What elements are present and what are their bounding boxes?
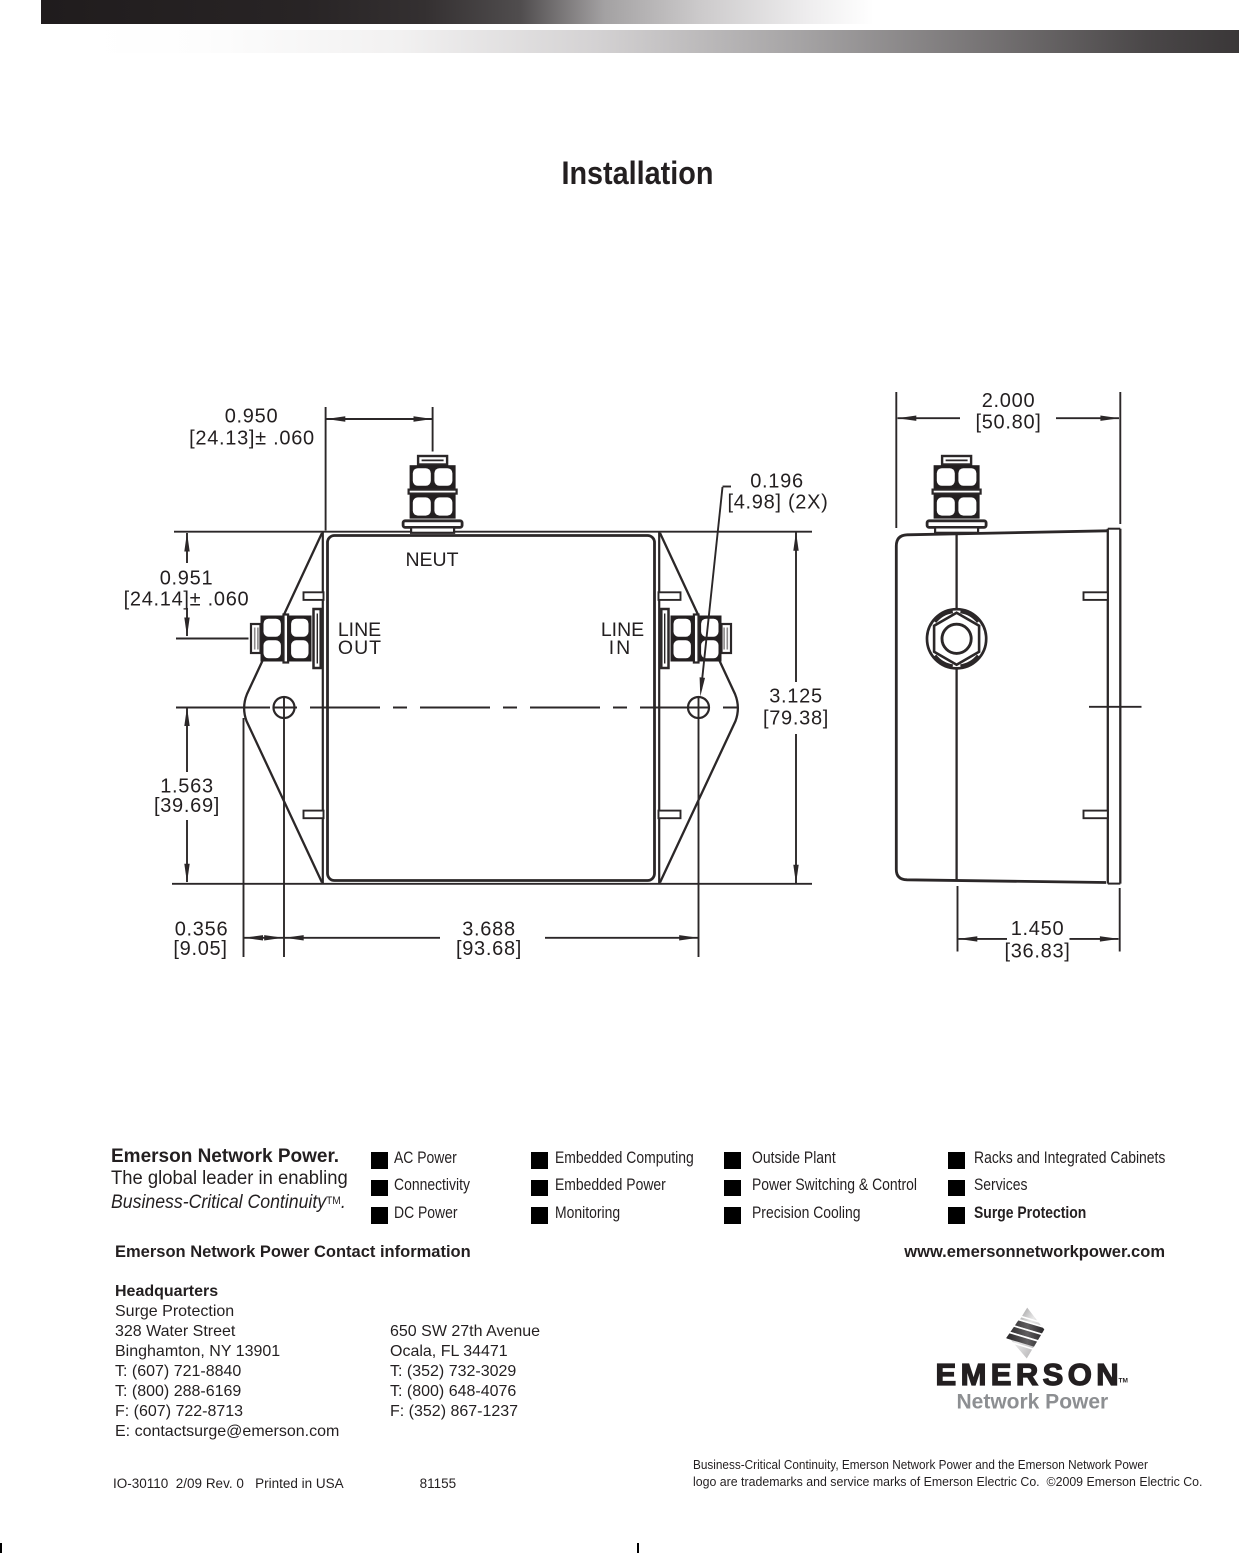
address column 2 [390,1322,540,1422]
LINE OUT terminal (left) [251,609,321,668]
bracket fold line right [658,533,660,884]
svg-text:NEUT: NEUT [405,549,458,571]
right mounting flange outline [660,533,738,883]
left mounting hole [274,697,295,718]
side body outline [896,531,1107,883]
bracket tab lower-left [304,811,324,819]
bracket top edge / extension line [174,531,812,533]
svg-text:[79.38]: [79.38] [763,708,829,730]
dimension 0.356 (bottom small) [244,937,284,939]
dimension line 1.450 [959,938,1008,940]
cylinder silhouette line [955,534,957,611]
bracket fold line left [322,533,324,884]
registration mark centre [637,1543,639,1553]
svg-text:Network Power: Network Power [957,1391,1109,1414]
dimension 0.951 (vertical, left) [186,533,188,563]
contact information heading row [115,1243,471,1262]
column 3 [724,1152,741,1169]
left mounting flange outline [244,533,322,883]
svg-text:IN: IN [609,637,633,659]
column 4 [948,1152,965,1169]
right mounting hole extension line [698,697,700,957]
plate tab upper (side) [1084,592,1108,600]
dimension text labels [124,390,1071,962]
terminal bolt (side top) [927,456,986,533]
svg-text:[39.69]: [39.69] [154,795,220,817]
header gradient bar top [41,0,1239,24]
hex nut on side face [927,609,986,668]
svg-text:TM: TM [1119,1378,1128,1385]
centerline (dash-dot) through mounting holes [250,707,741,709]
svg-text:[93.68]: [93.68] [456,938,522,960]
Emerson tagline block [111,1146,391,1215]
dimension 3.125 (vertical, right) [795,532,797,682]
page title [0,155,1239,192]
dimension line 0.950 [327,418,433,420]
leader for 0.196 hole callout [723,486,732,488]
plate centre tick [1089,706,1142,708]
right mounting hole [688,697,709,718]
svg-text:0.196: 0.196 [750,471,804,493]
svg-text:[24.14]± .060: [24.14]± .060 [124,588,250,610]
svg-text:[4.98] (2X): [4.98] (2X) [727,492,828,514]
filter body (front) [328,536,655,881]
dimension 3.688 (bottom) [285,937,441,939]
terminal labels [338,549,644,659]
column 1 [371,1152,388,1169]
svg-text:OUT: OUT [338,637,382,659]
dimension 0.950 extension line from body edge [325,407,327,531]
svg-text:0.950: 0.950 [225,406,279,428]
bracket bottom edge / extension line [172,883,812,885]
trademark notice [693,1457,1229,1491]
svg-text:[36.83]: [36.83] [1004,940,1070,962]
LINE IN terminal (right) [661,609,731,668]
svg-text:EMERSON: EMERSON [936,1357,1124,1392]
mounting plate (side) [1107,529,1109,884]
address column 1 [115,1282,339,1443]
svg-text:2.000: 2.000 [982,390,1036,412]
terminal centre extension line [176,638,249,640]
dimension 1.450 extension lines [957,886,959,952]
registration mark left [0,1543,2,1553]
svg-text:[9.05]: [9.05] [173,938,227,960]
svg-text:3.125: 3.125 [769,685,823,707]
dimension 1.563 (vertical, left) [186,708,188,773]
dimension 2.000 extension lines [895,392,897,528]
NEUT terminal bolt (top) [403,456,462,533]
svg-text:[50.80]: [50.80] [975,412,1041,434]
dimension 0.950 extension line from bolt center [432,407,434,452]
bracket tab upper-right [659,592,681,600]
bracket tab upper-left [304,592,324,600]
plate tab lower (side) [1084,811,1108,819]
svg-text:[24.13]± .060: [24.13]± .060 [189,427,315,449]
dimension line 2.000 [898,417,961,419]
left mounting hole extension line [283,697,285,957]
Emerson logo [930,1296,1140,1421]
column 2 [531,1152,548,1169]
bracket tab lower-right [659,811,681,819]
flange tip extension line [243,718,245,957]
document number footer [113,1476,456,1491]
svg-text:0.951: 0.951 [160,568,214,590]
header gradient bar second [90,30,1239,53]
svg-text:1.450: 1.450 [1011,918,1065,940]
centerline extension solid left [176,707,252,709]
business category list [0,0,1,1]
